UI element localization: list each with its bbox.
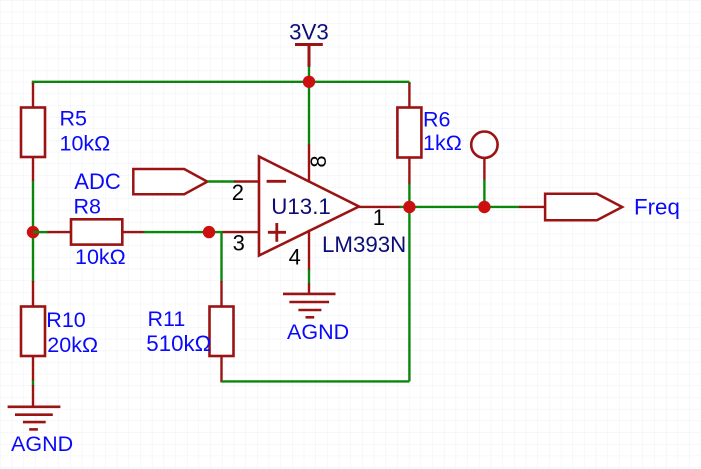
svg-text:R8: R8 — [74, 195, 102, 219]
junction dot at 3V3 rail — [303, 76, 315, 88]
wire top rail left corner down — [32, 82, 34, 84]
ground AGND (op-amp) — [283, 284, 336, 318]
wire test point stub (green) — [483, 180, 485, 207]
svg-text:10kΩ: 10kΩ — [75, 245, 126, 269]
wire feedback vertical up to output node — [408, 207, 410, 381]
minus mark (inverting input) — [267, 180, 286, 183]
wire R5 bottom to node A column — [32, 181, 34, 282]
svg-text:LM393N: LM393N — [322, 232, 406, 257]
junction dot output node — [403, 201, 415, 213]
wire output horizontal — [400, 206, 520, 208]
svg-text:10kΩ: 10kΩ — [60, 132, 111, 156]
power port 3V3 symbol — [295, 45, 323, 68]
svg-text:20kΩ: 20kΩ — [47, 333, 98, 357]
pin 4 lead — [308, 230, 310, 271]
ground AGND (bottom left) — [8, 385, 61, 429]
svg-text:8: 8 — [306, 155, 331, 167]
pin 2 lead — [234, 180, 259, 182]
svg-text:R5: R5 — [60, 106, 88, 130]
wire node A to R8 — [33, 231, 49, 233]
wire R6 bottom to output node — [408, 183, 410, 207]
resistor R8 — [48, 219, 145, 244]
pin 3 lead — [223, 231, 260, 233]
svg-text:ADC: ADC — [74, 169, 121, 194]
svg-text:1: 1 — [373, 205, 385, 230]
svg-text:R11: R11 — [148, 307, 186, 331]
wire pin 4 to ground stub — [308, 270, 310, 285]
wire top rail horizontal — [32, 81, 410, 83]
wire ADC to pin 2 — [207, 180, 235, 182]
svg-text:U13.1: U13.1 — [271, 194, 331, 219]
svg-text:Freq: Freq — [634, 194, 680, 219]
port ADC — [133, 169, 207, 194]
pin 8 lead — [308, 145, 310, 182]
pin 1 lead — [359, 206, 401, 208]
wire node B down to R11 — [220, 232, 222, 282]
svg-text:510kΩ: 510kΩ — [146, 331, 211, 356]
wire 3V3 stub to top rail — [308, 67, 310, 84]
plus mark (non-inverting input) — [268, 231, 286, 234]
wire R10 to ground stub — [32, 381, 34, 387]
svg-text:4: 4 — [289, 245, 301, 270]
port Freq — [545, 194, 622, 220]
svg-text:AGND: AGND — [287, 320, 349, 344]
wire rail to op-amp pin 8 — [308, 82, 310, 146]
resistor R10 — [21, 281, 45, 381]
svg-text:1kΩ: 1kΩ — [423, 131, 462, 155]
wire to Freq port (maroon segment) — [519, 206, 546, 208]
junction dot node A — [27, 226, 39, 238]
svg-text:AGND: AGND — [11, 432, 73, 456]
wire test point stub (maroon) — [483, 158, 485, 181]
test point circle — [471, 132, 497, 158]
junction dot node B — [203, 226, 215, 238]
wire feedback bottom horizontal — [222, 380, 410, 382]
op-amp U13.1 — [259, 157, 359, 256]
resistor R11 — [210, 281, 234, 382]
svg-text:2: 2 — [232, 180, 244, 205]
resistor R6 — [397, 83, 421, 185]
wire R8 to node B — [144, 231, 223, 233]
svg-text:R6: R6 — [423, 107, 451, 131]
junction dot test point node — [478, 201, 490, 213]
svg-text:R10: R10 — [46, 308, 85, 332]
wire top rail right corner down — [408, 82, 410, 84]
resistor R5 — [21, 83, 45, 182]
svg-text:3V3: 3V3 — [289, 20, 329, 45]
svg-text:3: 3 — [233, 231, 245, 256]
